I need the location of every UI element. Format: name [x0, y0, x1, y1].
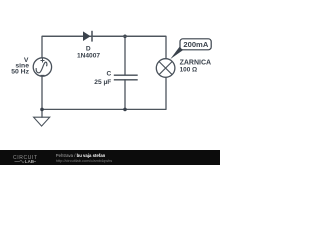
svg-text:C: C: [107, 71, 112, 78]
svg-text:1N4007: 1N4007: [77, 53, 100, 60]
svg-text:http://circuitlab.com/c/amb4qw: http://circuitlab.com/c/amb4qwhs: [56, 158, 112, 163]
svg-text:200mA: 200mA: [183, 40, 208, 49]
svg-text:25 µF: 25 µF: [94, 79, 111, 86]
svg-text:D: D: [86, 46, 91, 53]
svg-text:100 Ω: 100 Ω: [180, 67, 198, 74]
svg-text:50 Hz: 50 Hz: [11, 69, 29, 76]
